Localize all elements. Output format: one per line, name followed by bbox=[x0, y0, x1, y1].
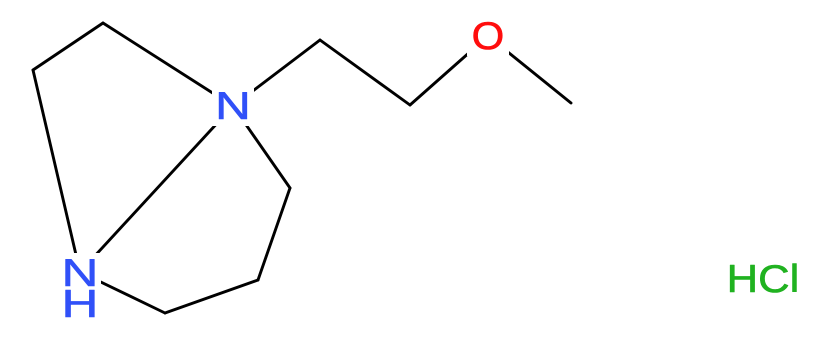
svg-text:H: H bbox=[62, 282, 99, 325]
svg-text:HCl: HCl bbox=[727, 257, 800, 300]
wire bond N-P1 (ring right side upper) bbox=[233, 106, 290, 188]
svg-text:O: O bbox=[472, 15, 505, 58]
wire bond A-B (apex to upper-left carbon) bbox=[33, 23, 103, 70]
wire bond N-A (long bond from ring N up-left to apex) bbox=[103, 23, 233, 106]
label mask for NH bbox=[59, 253, 101, 323]
wire bond C2-O (chain to oxygen) bbox=[410, 36, 488, 105]
wire bond P3-NH (ring bottom left) bbox=[80, 272, 165, 313]
svg-text:N: N bbox=[215, 85, 251, 128]
label mask for N bbox=[212, 86, 254, 126]
wire bond O-CH3 (methyl bond) bbox=[488, 36, 571, 103]
wire bond N-NH (long diagonal bond) bbox=[80, 106, 233, 272]
wire bond C1-C2 (chain second bond) bbox=[320, 40, 410, 105]
wire bond B-NH (left long bond) bbox=[33, 70, 80, 272]
wire bond N-C1 (chain first bond) bbox=[233, 40, 320, 106]
label mask for O bbox=[467, 15, 509, 56]
wire bond P1-P2 (ring right side lower) bbox=[258, 188, 290, 280]
wire bond P2-P3 (ring bottom right) bbox=[165, 280, 258, 313]
